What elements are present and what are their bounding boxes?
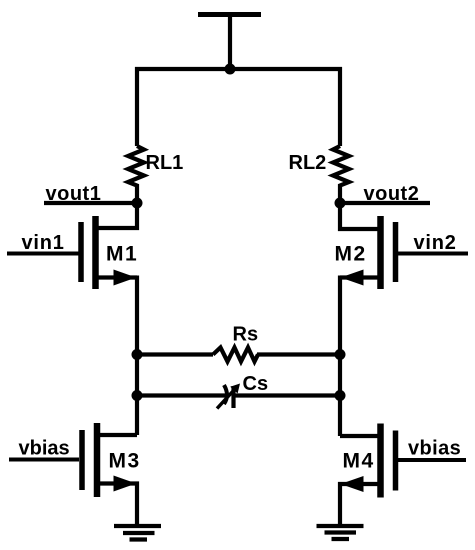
svg-text:vin2: vin2 (414, 232, 457, 254)
node vout1 (132, 198, 143, 209)
wire vin1 (gate of M1) (7, 252, 79, 256)
svg-text:RL2: RL2 (289, 152, 327, 174)
svg-text:Rs: Rs (233, 324, 259, 346)
wire left branch top (135, 67, 139, 146)
node vout2 (335, 198, 346, 209)
wire vbias right (gate of M4) (398, 458, 466, 462)
resistor RL2 (333, 146, 349, 203)
svg-text:M4: M4 (343, 450, 375, 473)
svg-text:vbias: vbias (408, 438, 461, 460)
VDD supply symbol (198, 15, 261, 70)
wire vin2 (gate of M2) (397, 252, 468, 256)
resistor Rs (137, 348, 340, 362)
transistor M1 (81, 201, 137, 289)
svg-text:vin1: vin1 (22, 232, 65, 254)
node Cs right (335, 390, 346, 401)
wire vout1 (44, 201, 137, 205)
wire top rail (135, 67, 342, 71)
node Cs left (132, 390, 143, 401)
wire right branch top (338, 67, 342, 146)
svg-text:M1: M1 (106, 243, 138, 266)
node supply junction (225, 64, 236, 75)
svg-text:vout1: vout1 (46, 183, 102, 205)
capacitor Cs (variable) (137, 385, 340, 409)
ground right (317, 526, 364, 539)
svg-text:vout2: vout2 (364, 183, 420, 205)
svg-text:Cs: Cs (243, 373, 269, 395)
node Rs left (132, 349, 143, 360)
svg-text:RL1: RL1 (146, 152, 184, 174)
svg-text:vbias: vbias (19, 438, 70, 460)
resistor RL1 (128, 146, 144, 203)
svg-text:M2: M2 (335, 243, 367, 266)
wire vout2 (340, 201, 430, 205)
wire vbias left (gate of M3) (9, 458, 79, 462)
node Rs right (335, 349, 346, 360)
transistor M3 (82, 423, 137, 526)
svg-text:M3: M3 (109, 450, 141, 473)
transistor M2 (340, 201, 396, 289)
wire left column (135, 276, 139, 436)
transistor M4 (340, 424, 396, 527)
wire right column (338, 276, 342, 437)
ground left (114, 526, 161, 540)
